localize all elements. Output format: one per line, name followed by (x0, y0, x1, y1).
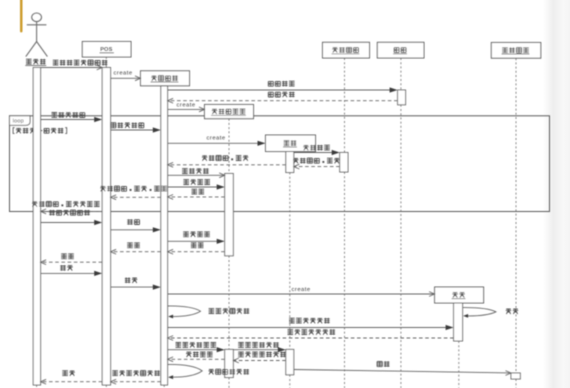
svg-text:POS: POS (100, 47, 113, 53)
svg-text:create: create (177, 103, 196, 109)
svg-text:create: create (292, 287, 311, 293)
svg-text:create: create (207, 136, 226, 142)
svg-text:loop: loop (13, 118, 24, 124)
svg-text:create: create (114, 71, 133, 77)
